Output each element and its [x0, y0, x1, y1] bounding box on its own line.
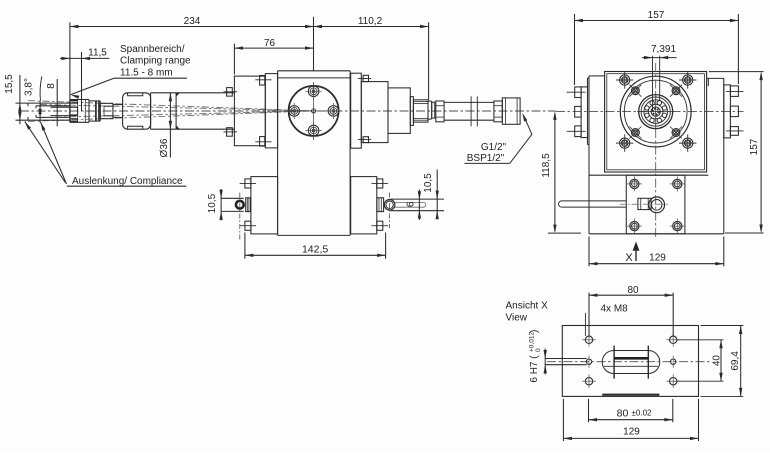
dim 40 (hole row spacing) [677, 340, 724, 381]
lower block left flank with bolts [240, 177, 278, 234]
svg-text:6 H7 (: 6 H7 ( [529, 355, 540, 383]
svg-text:157: 157 [749, 138, 760, 155]
dim 8 (inner jaw opening) [38, 83, 57, 123]
left clamp plate [265, 74, 277, 148]
dim 142,5 (lower block length) [245, 233, 386, 259]
svg-text:15,5: 15,5 [4, 74, 15, 94]
svg-text:Spannbereich/: Spannbereich/ [120, 44, 185, 55]
dim 118,5 (axis to base) [541, 111, 581, 233]
view direction arrow X [625, 242, 639, 265]
svg-text:80: 80 [627, 285, 639, 296]
svg-text:69,4: 69,4 [730, 351, 741, 371]
dim 69,4 (plate height) [701, 326, 744, 397]
svg-text:7,391: 7,391 [651, 44, 676, 55]
collet holder rings / groove [89, 101, 100, 122]
spindle center detail (bearing) [637, 94, 675, 130]
diagonal screws (4x at 45deg) [629, 85, 682, 139]
dim 157 right (front view height) [709, 72, 764, 233]
dim 234 (overall length) [70, 16, 314, 28]
collet chuck castellated nut [70, 100, 89, 123]
dim 15,5 (vertical, far left) [4, 74, 22, 124]
svg-text:11,5: 11,5 [88, 47, 107, 58]
svg-text:): ) [529, 330, 540, 333]
svg-text:±0.02: ±0.02 [632, 409, 653, 418]
svg-text:BSP1/2": BSP1/2" [467, 153, 505, 164]
dim 10,5 left [207, 189, 244, 220]
4x M8 corner holes [582, 333, 680, 388]
svg-text:142,5: 142,5 [302, 243, 328, 255]
svg-text:10,5: 10,5 [207, 193, 218, 213]
cylinder body (O36 clamping cylinder) [123, 93, 151, 129]
dim 11,5 (clamping travel) [60, 22, 109, 111]
dim 80 top with 4x M8 label [585, 285, 673, 336]
label Ansicht X / View [506, 301, 549, 324]
spindle nose piece [100, 103, 113, 118]
svg-text:157: 157 [648, 10, 665, 21]
svg-text:40: 40 [712, 355, 723, 367]
corner screws of front plate [616, 71, 696, 152]
front flange circle with 4 screws [286, 82, 342, 140]
label Auslenkung / Compliance with leader arrows [25, 122, 187, 188]
dim O36 (cylinder diameter) [159, 93, 172, 158]
svg-text:110,2: 110,2 [358, 16, 383, 27]
label G1/2 BSP1/2 with leader [464, 113, 532, 164]
svg-text:0: 0 [535, 348, 542, 352]
dim 110,2 [314, 16, 429, 100]
dim 3,8 degrees (jaw tilt) [24, 77, 42, 101]
lower block right flank with bolts [351, 177, 388, 234]
back body (front view) [589, 76, 724, 234]
collet jaws (opened clamping jaws) [16, 79, 78, 126]
bearing housing circles [620, 76, 691, 147]
svg-text:118,5: 118,5 [541, 153, 552, 178]
svg-text:76: 76 [264, 38, 276, 49]
stepped shaft / union to pipe [413, 100, 434, 122]
svg-text:234: 234 [184, 16, 201, 27]
dim 7,391 (spindle offset) [642, 44, 677, 110]
left side clamp block (front view) [567, 78, 590, 145]
svg-text:129: 129 [623, 427, 640, 438]
svg-text:G1/2": G1/2" [481, 142, 507, 153]
right pivot eye bolt with rod and washers [377, 193, 444, 229]
drawbar shaft stub [113, 105, 123, 118]
base plate horizontal centerline [547, 361, 710, 363]
dim 6 H7 dowel hole [529, 330, 587, 383]
svg-text:X: X [625, 252, 633, 264]
right side clamp block (front view) [707, 78, 744, 137]
svg-text:Ansicht X: Ansicht X [506, 301, 549, 312]
dim 80 +-0.02 (dowel spacing) [589, 399, 673, 422]
svg-text:Auslenkung/ Compliance: Auslenkung/ Compliance [72, 176, 183, 187]
svg-text:11.5 - 8 mm: 11.5 - 8 mm [120, 67, 173, 78]
front square plate [605, 72, 707, 173]
svg-text:4x M8: 4x M8 [601, 304, 629, 315]
svg-text:3,8°: 3,8° [24, 78, 35, 96]
base plate (view X) [562, 326, 698, 397]
left pivot eye bolt with washers [236, 193, 251, 242]
label Spannbereich / Clamping range 11.5 - 8 mm with leader [71, 44, 191, 99]
dim 6 (rod) [406, 190, 422, 221]
main housing column [278, 71, 351, 236]
left clamp block with bolts [224, 76, 272, 147]
center slot (obround) [602, 346, 660, 379]
svg-text:8: 8 [46, 83, 57, 89]
dim 157 top (front view width) [575, 10, 739, 85]
wire center axis (spindle axis, dash-dot) [20, 110, 744, 112]
compliance phantom deflection lines [28, 101, 314, 122]
dim 76 [234, 17, 313, 75]
svg-text:10,5: 10,5 [423, 173, 434, 193]
lower gear block (front view) with 4 screws [626, 175, 685, 234]
dim 10,5 right [423, 170, 439, 220]
quill tube to housing [151, 93, 235, 129]
dim 129 (front view bottom) [589, 237, 724, 267]
svg-text:Clamping range: Clamping range [120, 56, 191, 67]
clamp lever handle [559, 197, 669, 213]
pipe with break symbol and G1/2 fitting [436, 96, 520, 126]
svg-text:80: 80 [617, 408, 629, 420]
dim 129 (plate width) [563, 399, 698, 441]
vertical center line of front view [655, 63, 657, 237]
svg-text:Ø36: Ø36 [159, 138, 170, 157]
svg-text:6: 6 [406, 201, 417, 207]
dowel holes 6H7 [586, 356, 676, 368]
right clamp block with bolts and cap [351, 73, 414, 148]
svg-text:129: 129 [649, 253, 666, 264]
svg-text:View: View [506, 313, 528, 324]
